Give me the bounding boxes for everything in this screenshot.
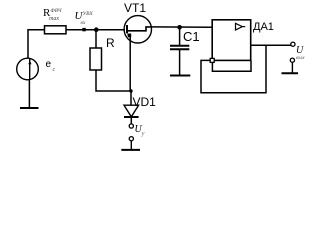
node square Uin probe bbox=[82, 28, 85, 31]
VT1 source lead down bbox=[129, 34, 131, 91]
label VD1 bbox=[133, 95, 156, 109]
node dot C1 bbox=[177, 25, 182, 30]
wire VT1 to opamp bbox=[152, 26, 213, 28]
C1 plates bbox=[170, 45, 189, 47]
VT1 channel bbox=[127, 27, 152, 31]
wire top-left horizontal bbox=[28, 30, 44, 58]
source e_c bbox=[17, 58, 39, 80]
opamp triangle symbol bbox=[236, 23, 243, 30]
ground bar under C1 bbox=[170, 75, 190, 77]
label Rmax bbox=[43, 7, 62, 19]
VD1 top lead bbox=[130, 91, 132, 105]
node junction dot bbox=[94, 27, 99, 32]
VT1 gate bar bbox=[126, 25, 128, 33]
label e_c bbox=[46, 59, 52, 70]
inner loop under opamp bbox=[212, 61, 251, 72]
label DA1 bbox=[253, 21, 274, 33]
label C1 bbox=[183, 29, 200, 44]
opamp DA1 rect bbox=[212, 20, 251, 61]
output ground bar bbox=[282, 72, 299, 74]
label Uy bbox=[135, 124, 145, 135]
output wire bbox=[251, 44, 291, 46]
wire R bottom to junction bbox=[96, 70, 131, 91]
C1 bottom lead bbox=[179, 49, 181, 75]
output ground stem bbox=[291, 62, 293, 72]
junction dot at VD1 top bbox=[129, 89, 132, 92]
wire resistor to transistor bbox=[66, 29, 125, 31]
ground bar under VD1 bbox=[121, 149, 140, 151]
transistor VT1 circle bbox=[124, 16, 151, 43]
output terminal circle bbox=[291, 42, 295, 46]
VD1 cathode bar bbox=[124, 116, 139, 118]
resistor R bbox=[90, 48, 102, 70]
wire source to ground bbox=[28, 80, 30, 108]
resistor Rmax bbox=[45, 26, 67, 34]
VD1 diode triangle bbox=[124, 105, 139, 117]
label Uout bbox=[296, 45, 303, 56]
ground stem under VD1 bbox=[130, 141, 132, 150]
C1 top lead bbox=[179, 27, 181, 45]
ground terminal circle under VD1 bbox=[129, 137, 133, 141]
label VT1 bbox=[124, 1, 146, 15]
VT1 source arrow bbox=[127, 34, 131, 38]
inverting input node square bbox=[210, 58, 214, 62]
label Uin bbox=[75, 10, 93, 22]
feedback outer loop bbox=[201, 45, 266, 92]
ground bar under source bbox=[20, 107, 39, 109]
label R bbox=[106, 36, 115, 50]
VD1 terminal circle bbox=[129, 124, 133, 128]
output ground terminal circle bbox=[290, 58, 294, 62]
VD1 bottom lead bbox=[130, 117, 132, 124]
resistor R branch wire bbox=[95, 30, 97, 48]
